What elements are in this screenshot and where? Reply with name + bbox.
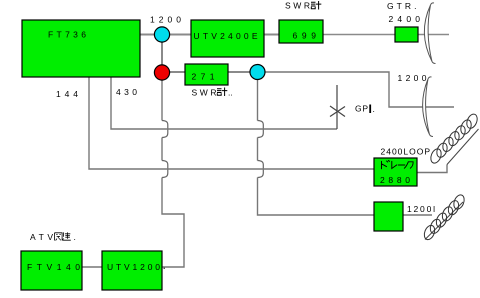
svg-text:1200l: 1200l: [407, 204, 435, 214]
svg-text:271: 271: [192, 72, 215, 82]
wire: 2400 amp to dish antenna: [418, 34, 449, 36]
antenna: 1200 loop boom: [425, 202, 463, 240]
kanji "kei" (meter) top: [311, 1, 321, 10]
svg-text:.: .: [373, 104, 375, 114]
antenna: 2400 loop (helix) boom: [447, 129, 479, 165]
wire: cyan junction 2 to 1200 antenna: [265, 72, 454, 107]
svg-text:ATV: ATV: [30, 232, 53, 242]
wire hop over 430 line: [162, 121, 168, 138]
wire: GP antenna feed: [336, 85, 338, 129]
wire: 271 to cyan junction 2: [228, 71, 250, 73]
box GTR 2400 amp: [395, 27, 418, 42]
wire: 1200 converter box to loop antenna: [403, 214, 432, 216]
wire: red junction to 271: [169, 71, 185, 73]
wire: FTV140 to UTV1200: [82, 266, 102, 268]
box FT736: [22, 20, 140, 77]
antenna dish 2400 (crescent): [424, 5, 432, 62]
svg-text:SWR: SWR: [192, 88, 217, 98]
wire: vertical from cyan junction 2 down (with hops): [257, 79, 259, 121]
wire hop over 144 line: [258, 161, 264, 178]
svg-text:144: 144: [56, 89, 78, 99]
box UTV2400E: [191, 20, 264, 57]
svg-text:UTV1200: UTV1200: [107, 262, 160, 272]
wire: vertical from red junction down (with hops): [161, 79, 163, 121]
svg-text:.: .: [74, 232, 76, 242]
text Drake katakana: [382, 160, 414, 168]
svg-text:..: ..: [228, 88, 233, 98]
antenna: 1200 loop coils: [422, 193, 466, 241]
wire hop over 430 line: [258, 121, 264, 138]
wire: down then jog to UTV1200: [162, 178, 184, 268]
box SWR meter 699: [279, 20, 323, 43]
wire: drake 2880 to 2400 loop antenna: [417, 165, 447, 173]
svg-text:430: 430: [116, 87, 137, 97]
svg-text:699: 699: [293, 31, 317, 41]
wire: FT736 to UTV2400E (1200MHz line): [140, 34, 191, 36]
antenna: 2400 loop coils: [429, 113, 479, 165]
wire: 699 to GTR 2400 amp: [323, 34, 395, 36]
wire: cyan junction down to red junction: [161, 40, 163, 66]
node: cyan junction 2: [250, 65, 265, 80]
kanji "kei" (meter) lower: [217, 88, 227, 97]
box FTV140: [21, 251, 82, 290]
box SWR meter 271: [185, 64, 228, 85]
node: red junction: [154, 65, 169, 80]
box Drake 2880 converter: [374, 158, 417, 186]
svg-text:2400LOOP: 2400LOOP: [381, 147, 431, 157]
wire hop over 144 line: [162, 161, 168, 178]
box 1200 loop converter: [374, 202, 403, 231]
GP antenna X symbol: [330, 106, 345, 117]
svg-text:GP: GP: [355, 104, 368, 114]
wire: UTV2400E to SWR meter 699: [264, 34, 279, 36]
kanji "kanren" (related): [55, 232, 71, 240]
box UTV1200: [102, 251, 162, 290]
wire: down to 1200 loop converter box: [258, 178, 375, 216]
node: cyan junction 1200: [154, 27, 169, 42]
wire: 144 output down from FT736: [89, 77, 374, 169]
antenna dish 1200 (crescent): [423, 79, 430, 135]
svg-text:SWR: SWR: [285, 1, 310, 11]
wire: 430 output down from FT736: [111, 77, 337, 129]
